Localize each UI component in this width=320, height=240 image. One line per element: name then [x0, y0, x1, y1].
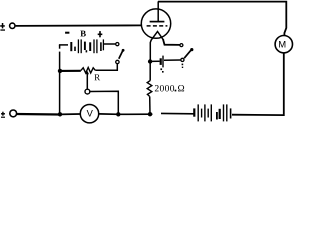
switch S2 blade (open) [119, 49, 124, 58]
wire wiper terminal to bottom node [90, 91, 118, 114]
label B of battery B [80, 31, 85, 37]
wire filament left leg down to cell node [149, 40, 152, 62]
grid (dashed) of V1 [147, 25, 168, 27]
label minus of battery B [65, 32, 69, 34]
wire bottom middle (node to node) [118, 113, 150, 115]
node junction rheostat / left vertical [58, 69, 62, 73]
cell C short plate [160, 58, 162, 65]
battery A (bottom multi-cell) [194, 104, 230, 121]
resistor 2000 ohm zigzag (vertical) [147, 81, 152, 97]
wire (continues after scan break) [161, 112, 194, 114]
label plus of battery B [98, 31, 103, 37]
switch S1 blade (open) [184, 49, 192, 58]
wire M down to bottom-right corner then left to battery A [232, 54, 284, 116]
wire left vertical (battery B minus lead down to bottom wire) [59, 44, 68, 46]
node junction of 2000-ohm resistor with bottom wire [148, 112, 152, 116]
meter V (voltmeter in bottom line) [80, 105, 98, 123]
terminal T2 (bottom input, ±) [1, 110, 17, 118]
meter M (plate milliammeter) [275, 36, 292, 53]
plate bar of V1 [150, 21, 165, 23]
wiper lead of rheostat R [86, 73, 88, 89]
battery B (filament/plate supply cells) [71, 39, 103, 53]
wiper terminal circle [85, 89, 90, 94]
rheostat R zigzag [81, 68, 96, 74]
plate lead of V1 [157, 1, 159, 21]
filament of V1 (inverted V) [151, 32, 164, 41]
wire rheostat left end to left vertical node [60, 70, 81, 72]
node junction of left vertical with bottom wire [58, 112, 62, 116]
wire switch S2 pivot down and left to rheostat R [95, 64, 117, 70]
tube V1 (triode envelope) [141, 9, 170, 38]
label R of rheostat [94, 74, 100, 80]
resistor 2000 ohm lower lead [149, 96, 151, 114]
label 2000 ohm [155, 85, 184, 91]
switch S2 blade handle blob [122, 49, 125, 52]
switch S1 pivot contact [181, 58, 184, 61]
switch S1 blade handle blob [190, 48, 193, 51]
wire node to bottom terminal [17, 113, 61, 116]
wiper arrow of rheostat R [86, 71, 89, 75]
wire cell C to switch S1 pivot [164, 59, 180, 61]
wire battery A left to 2000-ohm node [150, 113, 152, 115]
terminal T1 (top input, ±) [0, 23, 15, 31]
switch S1 pivot engraving specks [182, 64, 184, 66]
cell C long plate [162, 56, 164, 68]
wire node to cell C [150, 60, 160, 62]
wire node to meter V [99, 113, 118, 115]
node junction of wiper wire with bottom wire [116, 112, 120, 116]
switch S2 upper contact [116, 43, 119, 46]
switch S1 upper contact [180, 44, 183, 47]
wire meter V to left node [60, 113, 80, 115]
switch S2 pivot contact [116, 60, 119, 63]
resistor 2000 ohm lead from node [149, 62, 151, 81]
wire plate to top-right corner [158, 2, 286, 36]
cell C engraving specks [160, 68, 162, 70]
wire filament right leg to switch S1 contact [163, 39, 180, 45]
wire battery B plus to switch S2 contact [104, 43, 116, 45]
wire top-left terminal to tube grid [16, 24, 142, 27]
node junction filament leg / cell / 2000-ohm [148, 59, 152, 63]
